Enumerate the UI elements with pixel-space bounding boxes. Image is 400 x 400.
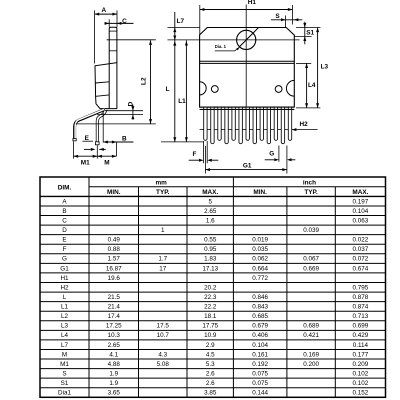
svg-text:D: D	[62, 227, 67, 234]
svg-text:0.075: 0.075	[252, 371, 268, 378]
svg-text:0.102: 0.102	[353, 371, 369, 378]
svg-text:3.85: 3.85	[204, 390, 217, 397]
svg-text:0.022: 0.022	[353, 237, 369, 244]
svg-text:0.072: 0.072	[353, 256, 369, 263]
side view: dimension D	[105, 110, 143, 112]
svg-text:10.9: 10.9	[204, 332, 217, 339]
svg-text:M1: M1	[60, 361, 69, 368]
svg-text:17: 17	[159, 265, 167, 272]
svg-text:0.063: 0.063	[353, 217, 369, 224]
svg-text:0.669: 0.669	[303, 265, 319, 272]
svg-text:H2: H2	[60, 284, 69, 291]
svg-text:1.7: 1.7	[158, 256, 167, 263]
front view: H2 reference line	[200, 129, 318, 131]
svg-text:0.874: 0.874	[353, 304, 369, 311]
front view: dimension L7	[174, 12, 176, 142]
side view: dimension L2	[150, 40, 152, 123]
svg-text:0.679: 0.679	[252, 323, 268, 330]
svg-text:0.144: 0.144	[252, 390, 268, 397]
side view: heatsink tab	[109, 27, 117, 109]
svg-text:0.55: 0.55	[204, 237, 217, 244]
svg-text:17.75: 17.75	[202, 323, 218, 330]
svg-text:19.6: 19.6	[108, 275, 121, 282]
svg-text:E: E	[62, 237, 66, 244]
svg-text:0.846: 0.846	[252, 294, 268, 301]
front view: right notch	[286, 80, 294, 96]
svg-text:4.88: 4.88	[108, 361, 121, 368]
svg-text:0.019: 0.019	[252, 237, 268, 244]
svg-text:M: M	[104, 160, 109, 167]
svg-text:0.772: 0.772	[252, 275, 268, 282]
svg-text:0.713: 0.713	[353, 313, 369, 320]
svg-text:17.4: 17.4	[108, 313, 121, 320]
svg-text:0.49: 0.49	[108, 237, 121, 244]
svg-text:5.3: 5.3	[206, 361, 215, 368]
svg-text:L2: L2	[140, 77, 147, 85]
svg-text:L: L	[63, 294, 67, 301]
svg-text:0.192: 0.192	[252, 361, 268, 368]
svg-text:21.5: 21.5	[108, 294, 121, 301]
front view: dimension L1	[185, 40, 187, 141]
svg-text:0.95: 0.95	[204, 246, 217, 253]
svg-text:0.039: 0.039	[303, 227, 319, 234]
svg-text:0.88: 0.88	[108, 246, 121, 253]
svg-text:4.5: 4.5	[206, 351, 215, 358]
front view: mounting hole Dia.1	[237, 30, 256, 49]
svg-text:Dia1: Dia1	[58, 390, 71, 397]
front view: left pin-1 index circle	[211, 86, 218, 93]
svg-text:2.65: 2.65	[204, 208, 217, 215]
side view: dimension E	[84, 148, 91, 150]
svg-text:0.406: 0.406	[252, 332, 268, 339]
svg-text:4.1: 4.1	[109, 351, 118, 358]
svg-text:10.7: 10.7	[157, 332, 170, 339]
dimension table	[40, 177, 386, 397]
front view: package outline	[200, 28, 295, 108]
side view: dimension B	[102, 112, 104, 142]
svg-text:1.57: 1.57	[108, 256, 121, 263]
svg-text:1.6: 1.6	[206, 217, 215, 224]
svg-text:0.685: 0.685	[252, 313, 268, 320]
svg-text:16.87: 16.87	[106, 265, 122, 272]
svg-text:0.843: 0.843	[252, 304, 268, 311]
svg-text:18.1: 18.1	[204, 313, 217, 320]
svg-text:0.104: 0.104	[252, 342, 268, 349]
front view: left notch	[200, 82, 207, 95]
svg-text:MAX.: MAX.	[352, 189, 368, 196]
svg-text:H1: H1	[248, 0, 257, 6]
svg-text:TYP.: TYP.	[304, 189, 318, 196]
svg-text:0.197: 0.197	[353, 198, 369, 205]
svg-text:L4: L4	[61, 332, 69, 339]
svg-text:F: F	[63, 246, 67, 253]
svg-text:L2: L2	[61, 313, 69, 320]
svg-text:inch: inch	[303, 179, 316, 186]
svg-text:L1: L1	[178, 98, 186, 105]
svg-text:4.3: 4.3	[158, 351, 167, 358]
front view: step lines	[200, 60, 295, 62]
svg-text:0.689: 0.689	[303, 323, 319, 330]
svg-text:5: 5	[208, 198, 212, 205]
svg-text:M: M	[62, 351, 67, 358]
front view: right index circle	[275, 86, 282, 93]
svg-text:S: S	[62, 371, 66, 378]
svg-text:H2: H2	[300, 121, 309, 128]
svg-text:0.429: 0.429	[353, 332, 369, 339]
svg-text:S1: S1	[61, 380, 69, 387]
side view: dimension A	[95, 13, 117, 15]
svg-text:1.83: 1.83	[204, 256, 217, 263]
front view: dimension L4	[306, 63, 308, 108]
svg-text:0.114: 0.114	[353, 342, 369, 349]
svg-text:0.169: 0.169	[303, 351, 319, 358]
front view: leads	[204, 108, 207, 141]
svg-text:L7: L7	[177, 18, 185, 25]
svg-text:S1: S1	[306, 29, 314, 36]
front view: dimension G1	[204, 146, 206, 174]
side view: bent front lead	[75, 110, 105, 140]
svg-text:17.5: 17.5	[157, 323, 170, 330]
svg-text:17.13: 17.13	[202, 265, 218, 272]
svg-text:0.699: 0.699	[353, 323, 369, 330]
svg-text:B: B	[62, 208, 66, 215]
svg-text:0.104: 0.104	[353, 208, 369, 215]
svg-text:3.65: 3.65	[108, 390, 121, 397]
svg-text:0.037: 0.037	[353, 246, 369, 253]
svg-text:mm: mm	[156, 179, 168, 186]
svg-text:M1: M1	[81, 160, 90, 167]
front view: dimension F	[203, 141, 205, 163]
front view: body bottom edges	[200, 106, 295, 108]
svg-text:0.075: 0.075	[252, 380, 268, 387]
svg-text:0.795: 0.795	[353, 284, 369, 291]
svg-text:20.2: 20.2	[204, 284, 217, 291]
svg-text:1.9: 1.9	[109, 380, 118, 387]
svg-text:22.2: 22.2	[204, 304, 217, 311]
svg-text:L1: L1	[61, 304, 69, 311]
svg-text:0.177: 0.177	[353, 351, 369, 358]
svg-text:G: G	[62, 256, 67, 263]
svg-text:L4: L4	[308, 82, 316, 89]
svg-text:0.674: 0.674	[353, 265, 369, 272]
svg-text:0.209: 0.209	[353, 361, 369, 368]
svg-text:0.067: 0.067	[303, 256, 319, 263]
svg-text:DIM.: DIM.	[58, 184, 72, 191]
front view: dimension L3	[317, 28, 319, 108]
svg-text:G: G	[269, 150, 274, 157]
svg-text:MAX.: MAX.	[202, 189, 218, 196]
svg-text:1.9: 1.9	[109, 371, 118, 378]
side view: plastic body	[95, 63, 117, 109]
front view: dimension S	[271, 19, 302, 21]
front view: dimension S1	[304, 22, 306, 45]
svg-text:B: B	[122, 135, 127, 142]
svg-text:1: 1	[161, 227, 165, 234]
svg-text:2.65: 2.65	[108, 342, 121, 349]
svg-text:F: F	[192, 151, 196, 158]
svg-text:MIN.: MIN.	[107, 189, 121, 196]
svg-text:0.878: 0.878	[353, 294, 369, 301]
svg-text:L3: L3	[321, 64, 329, 71]
svg-text:0.200: 0.200	[303, 361, 319, 368]
svg-text:L: L	[166, 86, 170, 93]
svg-text:2.6: 2.6	[206, 371, 215, 378]
svg-text:L7: L7	[61, 342, 69, 349]
svg-text:0.035: 0.035	[252, 246, 268, 253]
front view: horizontal hole centerline	[168, 39, 300, 41]
side view: dimensions M1 and M	[73, 141, 75, 158]
front view: dimension L	[173, 41, 176, 46]
svg-text:G1: G1	[60, 265, 69, 272]
svg-text:H1: H1	[60, 275, 69, 282]
svg-text:2.6: 2.6	[206, 380, 215, 387]
svg-text:Dia. 1: Dia. 1	[215, 44, 227, 49]
side view: dimension C	[105, 22, 134, 24]
svg-text:0.421: 0.421	[303, 332, 319, 339]
svg-text:C: C	[62, 217, 67, 224]
svg-text:D: D	[127, 101, 134, 106]
svg-text:2.9: 2.9	[206, 342, 215, 349]
svg-text:S: S	[275, 13, 280, 20]
side view: straight back lead	[97, 109, 106, 144]
svg-text:G1: G1	[243, 162, 252, 169]
svg-text:L3: L3	[61, 323, 69, 330]
svg-text:C: C	[122, 18, 127, 25]
svg-text:A: A	[101, 7, 106, 14]
svg-text:0.152: 0.152	[353, 390, 369, 397]
svg-text:5.08: 5.08	[157, 361, 170, 368]
front view: dimension G	[278, 146, 280, 162]
side view: hole centerline	[107, 39, 156, 41]
svg-text:TYP.: TYP.	[156, 189, 170, 196]
svg-text:21.4: 21.4	[108, 304, 121, 311]
svg-text:0.664: 0.664	[252, 265, 268, 272]
svg-text:MIN.: MIN.	[253, 189, 267, 196]
svg-text:17.25: 17.25	[106, 323, 122, 330]
svg-text:22.3: 22.3	[204, 294, 217, 301]
svg-text:0.102: 0.102	[353, 380, 369, 387]
svg-text:10.3: 10.3	[108, 332, 121, 339]
svg-text:0.161: 0.161	[252, 351, 268, 358]
front view: vertical centerline	[245, 5, 247, 112]
svg-text:0.062: 0.062	[252, 256, 268, 263]
